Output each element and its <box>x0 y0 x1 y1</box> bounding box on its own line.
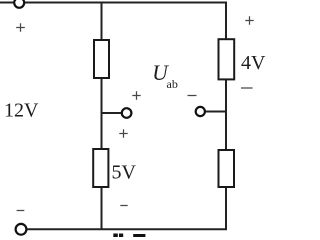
svg-text:ab: ab <box>167 77 178 91</box>
svg-text:4V: 4V <box>241 52 266 74</box>
svg-text:5V: 5V <box>112 162 137 184</box>
svg-text:12V: 12V <box>4 100 39 122</box>
